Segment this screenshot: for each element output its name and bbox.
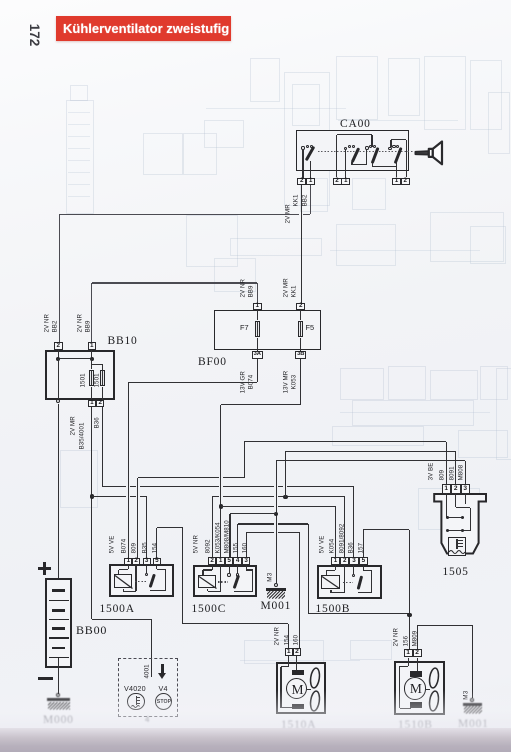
1500A pin 5: [0, 0, 1, 1]
1500B pin 1: [0, 0, 1, 1]
label 1500B: [316, 604, 351, 616]
1505 heater element: [0, 0, 1, 1]
label M000: [0, 0, 1, 1]
key symbol: [0, 0, 1, 1]
1510A fan blades: [0, 0, 1, 1]
ground M001 right: [0, 0, 1, 1]
BF00 pin 1: [0, 0, 1, 1]
indicator V4 STOP symbol: [0, 0, 1, 1]
label 13V GR B074 at BF00: [0, 0, 1, 1]
wire 160 from relay 1500C pin3 to motor 1510A pin2: [0, 0, 1, 1]
label 1501 left: [81, 374, 88, 388]
wire B35 to relay 1500A pin3: [0, 0, 1, 1]
label CA00: [340, 119, 371, 131]
1500B contact and lever: [0, 0, 1, 1]
1510B fan blades: [0, 0, 1, 1]
wire 157 from relay 1500B pin5: [0, 0, 1, 1]
BB10 internal bus: [0, 0, 1, 1]
fuse 1501 left: [0, 0, 1, 1]
relay 1500B box: [0, 0, 1, 1]
1500C pin 3: [0, 0, 1, 1]
wire 155 from relay 1500C pin4: [0, 0, 1, 1]
battery BB00 box: [0, 0, 1, 1]
label 2V NR BB2 at BB10: [0, 0, 1, 1]
wire 8091 to 1505 pin2: [0, 0, 1, 1]
1500C coil: [0, 0, 1, 1]
BB10 pin 2 top: [0, 0, 1, 1]
BF00 pin 3B: [0, 0, 1, 1]
label 1501 right: [94, 374, 101, 388]
wire 4001 to indicator box: [0, 0, 1, 1]
label BB10: [108, 336, 138, 348]
CA00 terminal block right pins 1 2: [0, 0, 1, 1]
1500C pin 1: [0, 0, 1, 1]
battery cells: [0, 0, 1, 1]
label F7: [240, 323, 249, 332]
1510B motor: [0, 0, 1, 1]
label 2V NR BB9 at BF00: [0, 0, 1, 1]
label 5V VE B074 809 B35 154 at 1500A: [0, 0, 1, 1]
wire battery negative to ground M000: [0, 0, 1, 1]
label V4020: [124, 684, 146, 693]
1505 pin 3: [0, 0, 1, 1]
label F5: [306, 323, 315, 332]
label 2V MR KK1 at BF00: [0, 0, 1, 1]
wire BB2 from CA00 to BB10: [0, 0, 1, 1]
label 1505: [443, 567, 469, 579]
CA00 switch contact S1: [0, 0, 1, 1]
node M808/M810 junction: [0, 0, 1, 1]
label M001 right: [0, 0, 1, 1]
label BB00: [76, 624, 107, 636]
1505 switch contacts: [0, 0, 1, 1]
1500A contact and lever: [0, 0, 1, 1]
1510A motor: [0, 0, 1, 1]
indicator assembly dashed box: [0, 0, 1, 1]
BF00 pin 3A: [0, 0, 1, 1]
CA00 terminal block left pins 2 1: [0, 0, 1, 1]
CA00 mechanical link dotted line: [0, 0, 1, 1]
CA00 switch contact S3: [0, 0, 1, 1]
node 156 junction: [0, 0, 1, 1]
fuse 1501 right: [0, 0, 1, 1]
page number 172: [22, 24, 48, 46]
wire 8092 from relay 1500C pin2: [0, 0, 1, 1]
ground M001 middle: [0, 0, 1, 1]
CA00 wire bracket: [0, 0, 1, 1]
1500A pin 2: [0, 0, 1, 1]
title banner Kühlerventilator zweistufig: [56, 16, 231, 42]
label 13V MR K053 at BF00: [0, 0, 1, 1]
BB10 pin 1 bottom: [0, 0, 1, 1]
label 2V NR 156 M809 at 1510B: [0, 0, 1, 1]
BB10 pin 2 bottom: [0, 0, 1, 1]
1500C contacts and lever: [0, 0, 1, 1]
1500A pin 3: [0, 0, 1, 1]
label 1510B: [0, 0, 1, 1]
1510B pin 2: [0, 0, 1, 1]
label M001 middle: [261, 601, 292, 613]
ignition switch CA00 box: [0, 0, 1, 1]
wire KK1 from CA00 to BF00: [0, 0, 1, 1]
1500A pin 1: [0, 0, 1, 1]
motor fan 1510A box: [0, 0, 1, 1]
label 3V BE 809 8091 M808 at 1505: [0, 0, 1, 1]
1500A coil: [0, 0, 1, 1]
1500B pin 5: [0, 0, 1, 1]
wire battery positive to BB10: [0, 0, 1, 1]
footnote 4: [145, 715, 149, 724]
label BF00: [198, 357, 227, 369]
label V4: [159, 684, 168, 693]
1510A pin 2: [0, 0, 1, 1]
1500C pin 2: [0, 0, 1, 1]
BB10 pin 1 top: [0, 0, 1, 1]
1510B pin 1: [0, 0, 1, 1]
battery BB00 positive terminal: [0, 0, 1, 1]
1510A pin 1: [0, 0, 1, 1]
label M3 right: [463, 691, 470, 700]
label 1500C: [192, 604, 227, 616]
wire M810 to relay 1500C pin5: [0, 0, 1, 1]
1500C pin 4: [0, 0, 1, 1]
wire K053 BF00 to relay 1500C pin1: [0, 0, 1, 1]
BB10 battery connector node: [0, 0, 1, 1]
label M3 middle: [267, 573, 274, 582]
label 5V VE K054 8091/8092 B36 157 at 1500B: [0, 0, 1, 1]
CA00 switch contact S4: [0, 0, 1, 1]
wire M809 from motor 1510B pin2 to ground M001: [0, 0, 1, 1]
BF00 pin 2: [0, 0, 1, 1]
fuse unit BB10 box: [0, 0, 1, 1]
node B35 junction: [0, 0, 1, 1]
thermoswitch 1505 body: [0, 0, 1, 1]
CA00 switch contact S2: [0, 0, 1, 1]
label 4001: [145, 665, 152, 679]
page bottom scan band: [0, 690, 511, 728]
relay 1500A box: [0, 0, 1, 1]
label 2V NR BB9 at BB10: [0, 0, 1, 1]
1500B pin 2: [0, 0, 1, 1]
fuse F5: [0, 0, 1, 1]
label 1510A: [0, 0, 1, 1]
motor fan 1510B box: [0, 0, 1, 1]
wire K054 to relay 1500B pin1: [0, 0, 1, 1]
node 8091/8092 junction: [0, 0, 1, 1]
label 2V MR B35/4001 B36 at BB10: [0, 0, 1, 1]
wire B35/4001 from BB10: [0, 0, 1, 1]
1500B coil: [0, 0, 1, 1]
1505 pin 2: [0, 0, 1, 1]
wire B074 BF00 to relay 1500A pin1: [0, 0, 1, 1]
1505 pin 1: [0, 0, 1, 1]
node K053/K054 junction: [0, 0, 1, 1]
label 2V NR 154 160 at 1510A: [0, 0, 1, 1]
1500B pin 3: [0, 0, 1, 1]
wire B36 from BB10 to relay 1500B pin3: [0, 0, 1, 1]
wire 809 relay 1500A pin2 to 1505 pin1: [0, 0, 1, 1]
1500C pin 5: [0, 0, 1, 1]
label 2V MR KK1 BB2 at CA00: [0, 0, 1, 1]
CA00 terminal block middle pins 2 1: [0, 0, 1, 1]
relay 1500C box: [0, 0, 1, 1]
wire 154 from relay 1500A pin5 to motor 1510A pin1: [0, 0, 1, 1]
wire BB9 from BB10 to BF00: [0, 0, 1, 1]
ground M000: [0, 0, 1, 1]
label 5V NR 8092 K053/K054 M808/M810 155 160 at 1500C: [0, 0, 1, 1]
fuse box BF00: [0, 0, 1, 1]
wire M808 ground net to 1505 pin3: [0, 0, 1, 1]
arrow symbol: [0, 0, 1, 1]
fuse F7: [0, 0, 1, 1]
label 1500A: [100, 604, 135, 616]
battery negative terminal: [0, 0, 1, 1]
indicator V4020 coolant symbol: [0, 0, 1, 1]
